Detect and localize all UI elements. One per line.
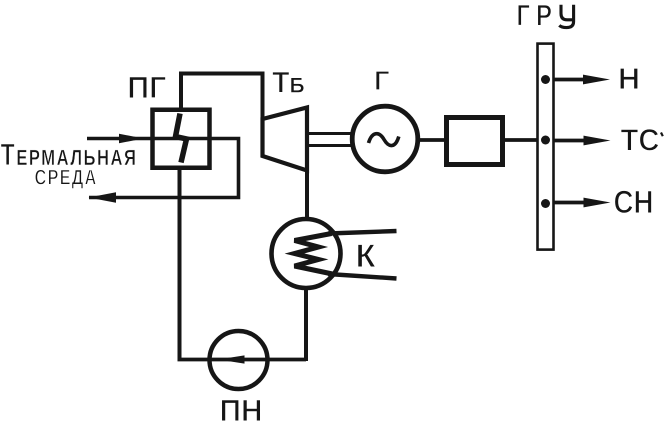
generator Г (circle) [352,106,418,172]
condenser К (circle) [272,219,341,288]
svg-text:Р: Р [536,0,552,33]
arrowhead: ТС feeder [584,136,611,146]
svg-text:СРЕДА: СРЕДА [35,166,98,190]
svg-text:СН: СН [614,184,654,220]
svg-text:Г: Г [517,0,531,33]
arrowhead: inlet arrow into ПГ [119,134,144,144]
wire: thermal water inlet line with loop through ПГ [87,139,239,198]
svg-text:Г: Г [374,65,390,96]
wire: condenser bottom to pump line [304,287,308,361]
turbine Тб (trapezoid) [263,108,308,171]
cooling water line (bottom) [328,274,397,279]
node: tap junction dot for Н [541,75,550,84]
wire: steam line from ПГ top to turbine inlet [181,74,263,122]
ГРУ busbar (vertical bar) [538,44,554,250]
cooling coil zigzag inside condenser [295,234,333,275]
svg-text:Н: Н [618,62,640,96]
svg-text:К: К [356,237,377,274]
wire: feedwater line from ПГ bottom down to pump line [178,167,182,360]
wire: tap line to СН [554,201,590,205]
arrowhead: flow direction inside pump [218,355,245,363]
wire: generator to transformer [418,138,448,142]
wire: turbine exhaust down to condenser [305,170,309,220]
wire: condensate line through pump [178,358,307,362]
cooling water line (top) [328,231,397,234]
arrowhead: outlet arrow (thermal water return) [89,192,117,203]
transformer (rectangle) [447,118,503,165]
shaft: double line turbine to generator [307,134,352,146]
arrowhead: СН feeder [584,198,611,208]
wire: tap line to Н [554,78,590,82]
heating zigzag (lightning bolt) inside ПГ [176,114,187,163]
tick mark after ТС [661,133,663,137]
wire: transformer to ГРУ busbar [504,138,538,142]
arrowhead: Н feeder [583,75,610,85]
steam generator ПГ (heat-exchanger box) [153,110,210,168]
AC sine symbol inside generator [369,134,399,146]
pump ПН (circle) [210,331,268,389]
svg-text:ТС: ТС [621,123,660,158]
svg-text:ПН: ПН [220,393,263,428]
node: tap junction dot for СН [541,199,550,208]
wire: tap line to ТС [554,139,590,143]
svg-text:ПГ: ПГ [127,70,166,105]
node: tap junction dot for ТС [541,136,550,145]
